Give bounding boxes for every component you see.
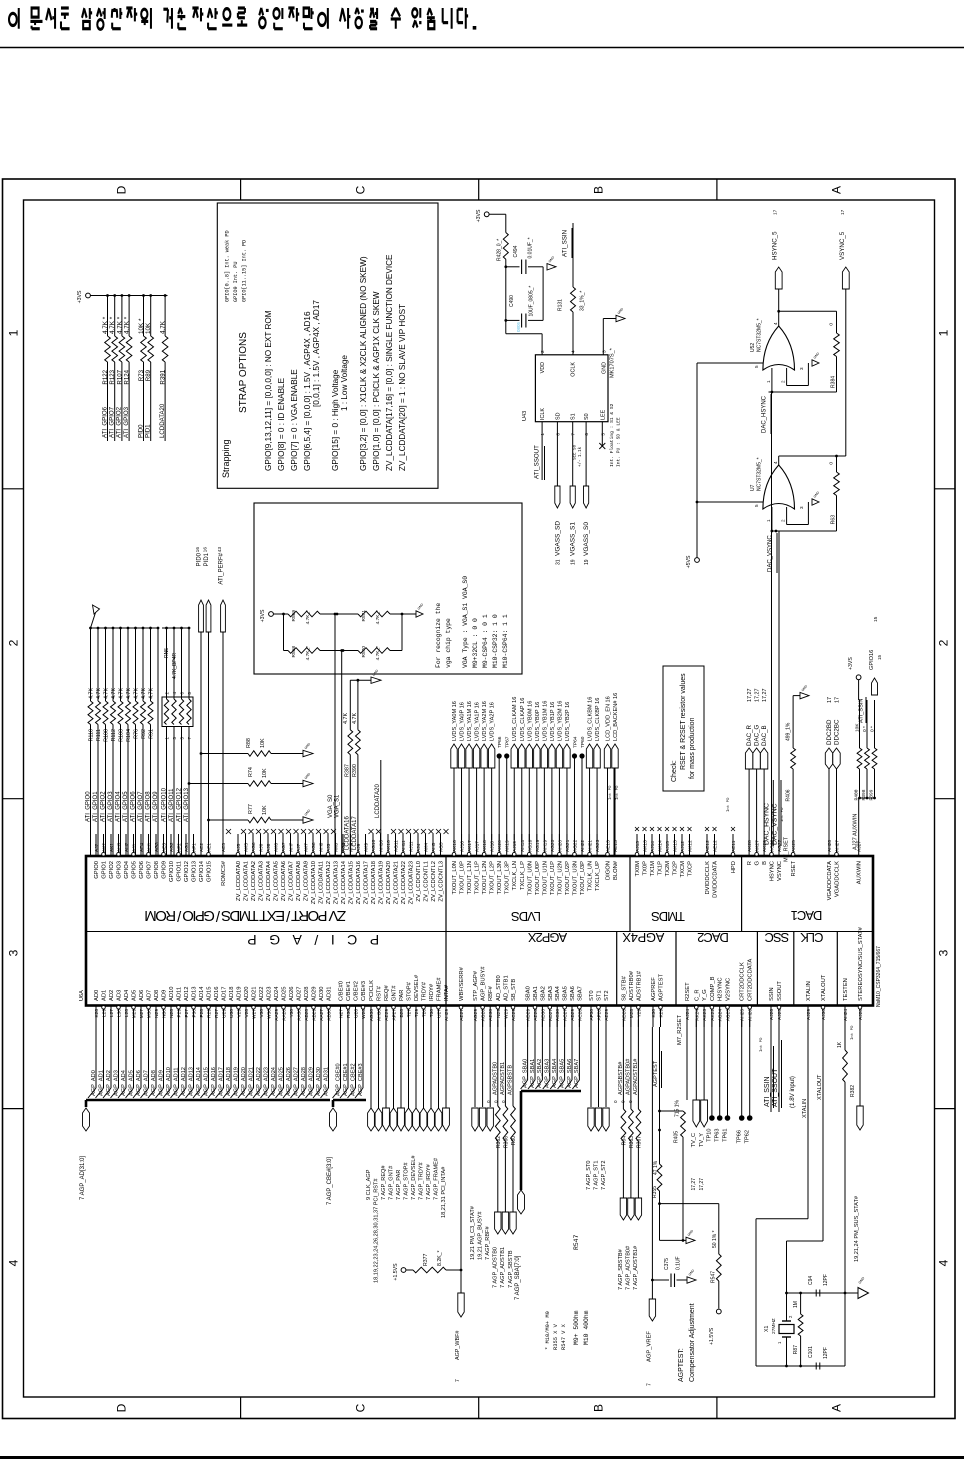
svg-text:AGP_SBA5: AGP_SBA5 [559,1059,565,1088]
svg-text:AG23: AG23 [595,839,601,852]
svg-text:1 : Low Voltage: 1 : Low Voltage [340,355,349,411]
svg-text:VSYNC_5: VSYNC_5 [839,231,846,260]
svg-text:7 AGP_CBE#[3:0]: 7 AGP_CBE#[3:0] [327,1157,333,1205]
svg-text:PAR: PAR [399,990,405,1002]
svg-text:LVDS_YB1M 16: LVDS_YB1M 16 [542,701,548,741]
svg-text:AH27: AH27 [835,840,841,852]
IC U6 body [86,856,873,1006]
svg-text:AG9: AG9 [341,842,347,852]
svg-text:R547 V X: R547 V X [561,1323,567,1350]
ground arrow (R74) [303,780,313,786]
svg-text:R547: R547 [573,1234,580,1250]
svg-text:AD30: AD30 [540,1009,546,1021]
svg-text:AGP_CBE#2: AGP_CBE#2 [350,1063,356,1096]
resistor R390 (LCDDATA17) [357,680,359,730]
svg-text:TX2P: TX2P [673,861,679,876]
net arrow VSYNC_5 [842,267,849,289]
svg-text:R398: R398 [861,789,867,800]
svg-text:10K *: 10K * [138,318,145,334]
svg-text:AD13: AD13 [192,986,198,1001]
svg-text:4.7K *: 4.7K * [124,316,131,334]
svg-text:VGASS_SD: VGASS_SD [554,521,561,556]
svg-text:AGP_WBF#: AGP_WBF# [455,1331,461,1360]
svg-text:AH22: AH22 [580,840,586,852]
svg-text:7 AGP_STOP#: 7 AGP_STOP# [403,1162,409,1200]
svg-text:B28: B28 [399,1009,405,1018]
or-gate U7 [778,456,780,465]
net label ATI_SSOUT (bottom) [778,1020,780,1113]
svg-text:AH8: AH8 [319,842,325,852]
svg-text:NsM10_CSP3264_715/667: NsM10_CSP3264_715/667 [876,946,882,1007]
vga-type box [254,503,522,674]
svg-text:Y29: Y29 [636,1009,642,1018]
svg-text:AJ28: AJ28 [858,1009,864,1020]
resistor R111 [97,627,100,630]
svg-text:B: B [592,186,606,194]
svg-text:AD4: AD4 [124,989,130,1001]
svg-text:1: 1 [766,519,771,522]
svg-text:TXOUT_U3N: TXOUT_U3N [572,861,578,895]
svg-text:R569: R569 [291,610,297,622]
power +3VS (vga box) [269,612,274,617]
svg-text:M10-CSP32: 1 0: M10-CSP32: 1 0 [492,614,499,668]
svg-text:1K: 1K [837,1041,843,1048]
svg-text:AD10: AD10 [169,986,175,1001]
svg-text:P28: P28 [199,1009,205,1018]
svg-text:ZV_LCDDATA17: ZV_LCDDATA17 [364,861,370,904]
power +3VS (pullup bank) [86,293,91,298]
resistor R87 1M [799,1292,802,1295]
svg-text:D: D [115,185,129,194]
svg-text:SBA1: SBA1 [533,986,539,1001]
resistor R77 [207,819,210,822]
ground arrow (R77) [303,817,313,823]
svg-text:R103: R103 [119,729,125,742]
svg-text:COMP_B: COMP_B [710,976,716,1001]
svg-text:TMDS: TMDS [651,909,685,924]
ground arrow (C494) [547,264,556,270]
svg-text:17,27: 17,27 [699,1178,705,1191]
svg-text:SB_STB: SB_STB [511,979,517,1001]
svg-text:4.7K: 4.7K [134,688,140,699]
svg-text:A: A [830,186,844,194]
svg-text:R123: R123 [109,369,116,384]
svg-text:AG21: AG21 [565,839,571,852]
svg-text:TXCLK_UN: TXCLK_UN [588,861,594,891]
svg-text:R355: R355 [652,1186,658,1198]
resistor R63 [836,456,838,472]
svg-text:AE11: AE11 [731,840,737,852]
svg-text:B: B [592,1404,606,1412]
svg-text:AK6: AK6 [274,843,280,852]
svg-text:RST#: RST# [377,985,383,1001]
IC U43 [535,355,608,422]
svg-text:4: 4 [7,1259,21,1266]
svg-text:AD21: AD21 [252,986,258,1001]
svg-text:SBA3: SBA3 [548,986,554,1001]
svg-text:REQ#: REQ# [384,984,390,1001]
svg-text:DEVSEL#: DEVSEL# [414,974,420,1001]
net arrow DDC2BD [828,769,830,834]
svg-text:AK17: AK17 [467,840,473,852]
resistor R88 [200,752,203,755]
svg-text:AH7: AH7 [289,842,295,852]
svg-text:M10-CSP64: 1 1: M10-CSP64: 1 1 [502,614,509,668]
svg-text:AE28: AE28 [533,1009,539,1021]
svg-text:AH5: AH5 [431,842,437,852]
svg-text:AJ27 AUXWIN: AJ27 AUXWIN [853,814,859,850]
svg-text:ATI_GPIO9: ATI_GPIO9 [153,791,159,822]
net arrow TV_C [695,1020,697,1101]
svg-text:WBF/SERR#: WBF/SERR# [459,966,465,1001]
svg-text:GPIO13: GPIO13 [192,861,198,882]
capacitor C375 [652,1279,669,1281]
svg-text:AD15: AD15 [207,986,213,1001]
svg-text:AJ18: AJ18 [490,841,496,852]
svg-text:ZV_LCDDATA21: ZV_LCDDATA21 [394,861,400,904]
svg-text:AGPREF: AGPREF [651,977,657,1001]
svg-text:R92: R92 [141,729,147,739]
svg-text:2: 2 [781,380,786,383]
svg-text:AK7: AK7 [304,843,310,852]
svg-text:19,21 PM_C3_STAT#: 19,21 PM_C3_STAT# [470,1205,476,1260]
svg-text:DVIDDCDATA: DVIDDCDATA [713,861,719,898]
or-gate U52 [763,326,795,370]
svg-text:Int. PU : SD & LEE: Int. PU : SD & LEE [616,417,622,467]
svg-text:TP63: TP63 [715,1129,721,1142]
resistor R384 [779,310,837,312]
svg-text:+1.5VS: +1.5VS [709,1327,715,1345]
svg-text:4.7K_*: 4.7K_* [375,610,381,625]
svg-text:PID0: PID0 [137,424,144,438]
svg-text:OCLK: OCLK [571,362,577,377]
svg-text:AGP_AD3: AGP_AD3 [113,1070,119,1096]
svg-text:AGP_SBA1: AGP_SBA1 [530,1059,536,1088]
svg-text:TXOUT_U0P: TXOUT_U0P [535,861,541,895]
svg-text:AJ15: AJ15 [665,841,671,852]
svg-text:ZV_LCDDATA[17,16] = [0,0] : SI: ZV_LCDDATA[17,16] = [0,0] : SINGLE FUNCT… [385,254,394,471]
svg-text:Y30: Y30 [289,1009,295,1018]
resistor R547 [658,1202,661,1205]
svg-text:TXCP: TXCP [688,861,694,877]
svg-text:0: 0 [621,1100,626,1103]
svg-text:AJ12: AJ12 [680,841,686,852]
svg-text:AA29: AA29 [274,1009,280,1021]
svg-text:715 1%: 715 1% [675,1099,681,1117]
svg-text:AA27: AA27 [319,1009,325,1021]
svg-text:VGASS_S1: VGASS_S1 [570,522,577,556]
wire [489,213,506,215]
svg-text:0: 0 [829,462,835,465]
svg-text:AK27: AK27 [755,840,761,852]
pin wires SD S1 S0 [556,422,558,486]
capacitor C101 [815,1363,817,1370]
svg-text:7: 7 [646,1383,652,1386]
svg-text:Int PD: Int PD [760,1037,764,1052]
svg-text:AH20: AH20 [557,840,563,852]
wire [572,223,574,287]
wire [320,613,358,615]
svg-text:AGP_SBA6: AGP_SBA6 [567,1059,573,1088]
svg-text:4.7K: 4.7K [352,713,358,724]
svg-text:TXCLK_UP: TXCLK_UP [595,861,601,891]
svg-text:STOP#: STOP# [407,981,413,1001]
svg-text:VGA Type : VGA_S1 VGA_S0: VGA Type : VGA_S1 VGA_S0 [462,576,469,668]
svg-text:RBF#: RBF# [488,985,494,1001]
svg-text:LVDS_YA2M 16: LVDS_YA2M 16 [482,701,488,741]
svg-text:R30: R30 [346,1009,352,1018]
svg-text:15: 15 [873,616,879,622]
svg-text:ZV_LCDDATA13: ZV_LCDDATA13 [334,861,340,904]
svg-text:7 AGP_ADSTB0: 7 AGP_ADSTB0 [493,1247,499,1288]
svg-text:7 AGP_RBF#: 7 AGP_RBF# [485,1226,491,1260]
svg-text:GPIO[11..15] Int. PD: GPIO[11..15] Int. PD [242,240,248,302]
svg-text:R377: R377 [423,1253,429,1266]
svg-text:AH30: AH30 [377,1009,383,1021]
svg-text:ST2: ST2 [604,990,610,1001]
svg-text:AG10: AG10 [371,839,377,852]
svg-text:LVDS_YB0P 16: LVDS_YB0P 16 [535,702,541,741]
svg-text:AC30: AC30 [555,1009,561,1021]
svg-text:AK18: AK18 [482,840,488,852]
net arrow AGP_ADSTB1 [502,1212,508,1234]
testpoint TP10 [711,1020,713,1119]
svg-text:GPIO[1,0] = [0,0] : PCICLK & A: GPIO[1,0] = [0,0] : PCICLK & AGP1X CLK S… [372,291,381,471]
svg-text:0: 0 [829,323,835,326]
wire HSYNC_5 [778,289,780,326]
svg-text:ATI_SSIN: ATI_SSIN [562,230,569,257]
svg-text:GPIO6: GPIO6 [139,861,145,879]
svg-text:SBA0: SBA0 [526,986,532,1001]
svg-text:7 AGP_ADSTB1: 7 AGP_ADSTB1 [500,1247,506,1288]
ground arrow (vga box) [416,611,423,617]
svg-text:Strapping: Strapping [221,439,231,478]
wire right vertical [844,1293,846,1366]
svg-text:AD16: AD16 [214,986,220,1001]
svg-text:3: 3 [799,506,804,509]
svg-text:AG8: AG8 [311,842,317,852]
svg-text:3: 3 [7,949,21,956]
svg-text:17,27: 17,27 [691,1178,697,1191]
svg-text:R367: R367 [636,1136,642,1148]
net arrows DAC_R DAC_G DAC_B [748,768,750,834]
svg-text:AC27: AC27 [563,1009,569,1021]
svg-text:AD22: AD22 [259,986,265,1001]
svg-text:ATI_GPIO0: ATI_GPIO0 [85,791,91,822]
svg-text:AE27: AE27 [459,1009,465,1021]
svg-text:AK15: AK15 [673,840,679,852]
svg-text:R112: R112 [111,729,117,742]
svg-text:GPIO9: GPIO9 [162,861,168,879]
svg-text:AH18: AH18 [520,840,526,852]
svg-text:R124: R124 [124,369,131,384]
svg-text:INTA#: INTA# [444,984,450,1001]
svg-text:TXOUT_U2N: TXOUT_U2N [557,861,563,895]
svg-text:PCICLK: PCICLK [369,980,375,1001]
svg-text:ATI_PERF#: ATI_PERF# [219,552,225,584]
wire VGA_S0 [334,614,336,856]
svg-text:HSYNC: HSYNC [770,861,776,881]
svg-text:R387: R387 [344,764,350,777]
svg-text:4.7K_BP4R: 4.7K_BP4R [172,652,178,679]
svg-text:AG20: AG20 [550,839,556,852]
svg-text:ZV_LCDDATA3: ZV_LCDDATA3 [259,861,265,901]
svg-text:18,21,31 PCI_INTA#: 18,21,31 PCI_INTA# [441,1166,447,1218]
svg-text:47 1%: 47 1% [653,1160,659,1175]
svg-text:AE2: AE2 [199,843,205,852]
svg-text:SSIN: SSIN [769,987,775,1001]
document title (Korean) [9,8,19,29]
bus arrow AGP_SBA[7:0] [518,1190,525,1214]
IC U6 section dividers top [445,856,447,932]
svg-text:AG24: AG24 [718,1009,724,1022]
resistor R571 [358,611,390,617]
wire [505,259,507,334]
svg-text:ATI_GPIO3: ATI_GPIO3 [108,791,114,822]
svg-text:3: 3 [601,350,607,353]
capacitor C490 [506,319,520,321]
svg-text:ZV_LCDDATA4: ZV_LCDDATA4 [266,860,272,901]
power +1.5VS (R547) [716,1309,721,1314]
wire [320,650,358,652]
svg-text:SSC: SSC [765,930,789,945]
svg-text:AE12: AE12 [713,840,719,852]
header rule [0,47,964,49]
svg-text:AE30: AE30 [488,1009,494,1021]
svg-text:4.7K *: 4.7K * [116,316,123,334]
svg-text:AGP_AD7: AGP_AD7 [143,1070,149,1096]
svg-text:ZV_LCDDATA2: ZV_LCDDATA2 [251,861,257,901]
svg-text:19: 19 [584,559,590,565]
svg-text:AGP_AD31: AGP_AD31 [323,1067,329,1096]
svg-text:VGASS_S0: VGASS_S0 [583,522,590,556]
svg-text:AK23: AK23 [702,1009,708,1021]
svg-text:10K: 10K [262,768,268,778]
svg-text:VGADDCDATA: VGADDCDATA [827,861,833,901]
net arrow AGP_BUSY# [482,1020,484,1108]
svg-text:D: D [115,1403,129,1412]
svg-text:AJ16: AJ16 [460,841,466,852]
svg-text:GPIO5: GPIO5 [132,861,138,879]
svg-text:AGP_AD15: AGP_AD15 [203,1067,209,1096]
resistor R122 [106,294,109,297]
svg-text:AE3: AE3 [162,843,168,852]
resistor R355 [658,1129,661,1132]
ground arrow (U7) [812,499,819,505]
svg-text:AJ13: AJ13 [635,841,641,852]
svg-text:R91: R91 [149,729,155,739]
svg-text:C: C [354,185,368,194]
svg-text:SEE S0: SEE S0 [574,444,578,460]
svg-text:TXCLK_LP: TXCLK_LP [520,861,526,890]
svg-text:AJ7: AJ7 [296,843,302,852]
svg-text:(1.8V input): (1.8V input) [789,1076,796,1108]
net label LCDDATA20 [380,760,382,856]
svg-text:LVDS_CLKAP 16: LVDS_CLKAP 16 [520,698,526,741]
svg-text:AG19: AG19 [535,839,541,852]
svg-text:M9+32CL : 0 0: M9+32CL : 0 0 [472,618,479,668]
svg-text:DDC2BD: DDC2BD [826,719,833,745]
svg-text:AGP_AD0: AGP_AD0 [91,1070,97,1096]
gpio bank rail [91,627,159,629]
svg-text:AD8: AD8 [154,990,160,1001]
svg-text:AGP_AD25: AGP_AD25 [278,1067,284,1096]
svg-text:ZV_LCDDATA10: ZV_LCDDATA10 [311,861,317,904]
svg-text:LVDS_CLKBM 16: LVDS_CLKBM 16 [588,697,594,741]
svg-text:B: B [762,861,768,865]
wire U52 input 2 loop [786,368,788,386]
svg-text:9 CLK_AGP: 9 CLK_AGP [366,1169,372,1200]
svg-text:W29: W29 [503,1009,509,1019]
svg-text:R: R [747,861,753,865]
svg-text:ATI_SSOUT: ATI_SSOUT [534,445,541,479]
svg-text:ATI_GPIO10: ATI_GPIO10 [161,787,167,822]
svg-text:AG28: AG28 [481,1009,487,1022]
svg-text:ATI_GPIO4: ATI_GPIO4 [115,791,121,822]
svg-text:ZV_LCDCNTL3: ZV_LCDCNTL3 [439,861,445,902]
svg-text:AH9: AH9 [349,842,355,852]
svg-text:VGADDCCLK: VGADDCCLK [835,861,841,897]
svg-text:7 AGP_ADSTB1#: 7 AGP_ADSTB1# [633,1245,639,1290]
testpoint TP63 [719,1020,721,1119]
svg-text:AGP_VREF: AGP_VREF [646,1331,652,1362]
svg-text:C375: C375 [664,1258,670,1270]
svg-text:CRT2DDCDATA: CRT2DDCDATA [748,959,754,1001]
ground arrow (xtal) [845,1292,858,1294]
svg-text:N30: N30 [162,1009,168,1018]
zone ticks right [935,488,956,490]
svg-text:V28: V28 [244,1009,250,1018]
svg-text:4.7K_*: 4.7K_* [305,610,311,625]
svg-text:AD12: AD12 [184,986,190,1001]
svg-text:N28: N28 [169,1009,175,1018]
net arrow HSYNC_5 [775,267,782,289]
svg-text:0 *: 0 * [870,726,876,732]
svg-text:AD14: AD14 [199,986,205,1001]
svg-text:AD27: AD27 [548,1009,554,1021]
svg-text:R382: R382 [850,1085,856,1097]
svg-text:ATI_GPIO12: ATI_GPIO12 [176,787,182,822]
svg-text:AJ29: AJ29 [806,1009,812,1020]
svg-text:+3VS: +3VS [848,657,854,670]
sheet inner border [24,200,935,1397]
svg-text:AK8: AK8 [334,843,340,852]
svg-text:AH28: AH28 [827,840,833,852]
svg-text:AK12: AK12 [688,840,694,852]
svg-text:T29: T29 [414,1009,420,1018]
svg-text:10K: 10K [262,805,268,815]
svg-text:4.7K *: 4.7K * [102,316,109,334]
svg-text:AGP_AD26: AGP_AD26 [286,1067,292,1096]
svg-text:R547: R547 [711,1271,717,1283]
svg-text:ZV_LCDDATA5: ZV_LCDDATA5 [274,861,280,901]
svg-text:LVDS_YB1P 16: LVDS_YB1P 16 [550,702,556,741]
svg-text:AD18: AD18 [229,986,235,1001]
CBE bus [333,1099,366,1102]
svg-text:AGPADSTB1: AGPADSTB1 [500,1062,506,1095]
svg-text:XTALOUT: XTALOUT [817,1074,823,1100]
svg-text:VSYNC: VSYNC [777,861,783,881]
net label AUXWIN [858,798,860,834]
svg-text:ZV_LCDDATA19: ZV_LCDDATA19 [379,861,385,904]
svg-text:4.7K *: 4.7K * [109,316,116,334]
svg-text:10K: 10K [855,723,861,732]
svg-text:AGPTEST: AGPTEST [659,973,665,1001]
resistor R64 [622,1020,624,1110]
svg-text:R73: R73 [138,369,145,381]
LVDS net arrows and testpoints [453,768,455,840]
svg-text:AH1: AH1 [147,842,153,852]
